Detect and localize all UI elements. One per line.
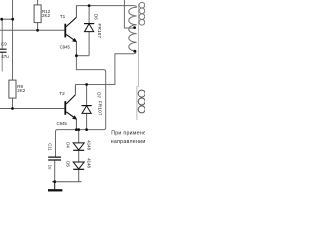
node dot transformer tap <box>133 26 136 29</box>
diode D4 <box>73 143 84 150</box>
svg-text:D5: D5 <box>65 161 70 167</box>
capacitor C11 <box>48 157 61 160</box>
diode D7 <box>82 106 92 114</box>
transformer bottom axis line <box>136 86 138 120</box>
wire T1 base rail <box>0 29 65 31</box>
svg-text:D7: D7 <box>96 92 101 98</box>
svg-text:При применении: При применении <box>111 131 145 137</box>
node dot ground <box>53 180 56 183</box>
wire ground rail <box>52 181 82 183</box>
transformer primary winding <box>129 7 137 51</box>
svg-text:FR107: FR107 <box>97 24 102 39</box>
node dot C9 top <box>0 18 3 21</box>
node dot R9 bottom <box>11 107 14 110</box>
wire T1 emitter vertical <box>75 42 77 56</box>
svg-text:C945: C945 <box>57 121 68 126</box>
wire D7 cathode lead <box>86 85 88 106</box>
node dot D4 chain top <box>77 128 80 131</box>
transformer secondary winding top right <box>139 2 145 25</box>
diode D6 <box>84 24 94 32</box>
svg-text:C9: C9 <box>1 41 7 46</box>
wire left vertical x=12.5 through R9 <box>12 0 14 109</box>
resistor R9 <box>9 80 16 98</box>
svg-text:C945: C945 <box>60 45 71 50</box>
node dot D7 anode bottom <box>85 128 88 131</box>
node dot D7 cathode rail <box>85 83 88 86</box>
wire D6 anode lead <box>88 32 90 56</box>
svg-text:направлении си: направлении си <box>111 139 145 145</box>
svg-text:T1: T1 <box>60 14 66 19</box>
node dot R12 bottom <box>36 29 39 32</box>
wire D4-D5 middle lead <box>78 151 80 162</box>
svg-text:4148: 4148 <box>86 158 91 168</box>
wire T1 collector vertical <box>75 6 77 18</box>
svg-text:FR107: FR107 <box>98 101 103 116</box>
wire C9 lower stub <box>1 53 3 72</box>
wire node down to bottom rail and C11 <box>56 56 106 157</box>
transistor T1 <box>65 17 77 42</box>
node dot D6 top <box>88 4 91 7</box>
ground <box>48 182 62 191</box>
diode D5 <box>73 162 84 169</box>
wire emitter node rail <box>76 55 89 57</box>
wire D4 top lead <box>78 130 80 143</box>
wire R12 bottom lead <box>37 23 39 31</box>
svg-text:2K2: 2K2 <box>42 13 51 18</box>
wire T2 collector vertical <box>74 85 76 95</box>
svg-text:47u: 47u <box>1 54 9 59</box>
node dot T1 emitter node <box>75 54 78 57</box>
wire D5 bottom lead <box>78 170 80 182</box>
svg-text:4148: 4148 <box>86 140 91 150</box>
node dot transformer bottom <box>133 50 136 53</box>
resistor R12 <box>34 5 41 23</box>
wire top rail to transformer <box>76 6 136 8</box>
wire T2 emitter vertical <box>75 120 77 130</box>
capacitor C9 <box>0 49 7 52</box>
transistor T2 <box>65 95 77 120</box>
svg-text:D6: D6 <box>94 14 99 20</box>
svg-text:C11: C11 <box>47 143 52 151</box>
wire C9 branch <box>1 19 3 49</box>
wire D6 cathode lead <box>88 6 90 24</box>
transformer core <box>137 4 139 87</box>
transformer secondary winding bottom right <box>138 90 145 113</box>
svg-text:1u: 1u <box>47 165 52 170</box>
node dot left vertical <box>11 18 14 21</box>
svg-text:2K2: 2K2 <box>17 88 26 93</box>
wire R12 top lead <box>37 0 39 5</box>
svg-text:T2: T2 <box>59 91 65 96</box>
wire D7 anode lead <box>86 114 88 130</box>
wire C11 bottom lead <box>54 160 56 181</box>
svg-text:D4: D4 <box>65 142 70 148</box>
wire top-left horizontal <box>2 18 13 20</box>
node dot T2 emitter bottom <box>75 128 78 131</box>
wire transformer tap from top edge <box>124 0 134 28</box>
wire T2 base rail <box>0 108 65 110</box>
wire T2 collector rail to transformer bottom <box>75 51 135 84</box>
